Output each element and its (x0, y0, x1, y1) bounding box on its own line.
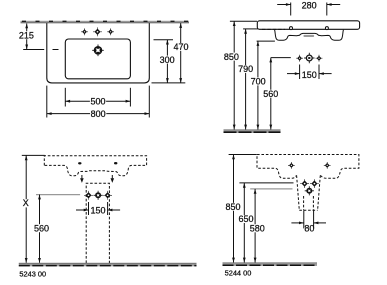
trap dashed (297, 175, 321, 210)
svg-text:5244 00: 5244 00 (225, 269, 252, 278)
tick 580 grey (250, 188, 292, 190)
svg-text:850: 850 (225, 202, 240, 212)
dim 80 (291, 211, 326, 234)
hidden edge dashes (262, 28, 285, 30)
svg-text:850: 850 (224, 52, 239, 62)
floor bar (front) (224, 130, 281, 133)
svg-text:800: 800 (91, 109, 106, 119)
svg-text:790: 790 (238, 64, 253, 74)
dim 470 (173, 23, 189, 83)
basin outline dashed (44, 156, 146, 176)
dim 560 (front) (263, 58, 291, 130)
dim 650 (238, 183, 254, 263)
fixing dot left (78, 162, 81, 164)
fixture hole right (316, 55, 323, 62)
dim 280 (277, 1, 340, 16)
wall section bar (21, 21, 190, 23)
svg-text:300: 300 (160, 55, 175, 65)
arrow left (80, 175, 84, 183)
svg-text:215: 215 (19, 30, 34, 40)
fixing hole left (290, 27, 293, 30)
dim baseline right (152, 82, 186, 84)
svg-text:560: 560 (263, 89, 278, 99)
svg-text:150: 150 (90, 205, 105, 215)
tap hole right (107, 28, 114, 35)
dim 500 (65, 88, 130, 107)
svg-text:700: 700 (251, 77, 266, 87)
svg-text:80: 80 (304, 224, 314, 234)
fixture hole right (310, 179, 319, 188)
dim 150 (dashed view) (76, 202, 120, 215)
grey reference line (36, 194, 80, 196)
svg-text:5243 00: 5243 00 (19, 270, 46, 279)
basin slab front (257, 21, 359, 30)
dim 850 (side) (225, 155, 257, 263)
drain mark (304, 53, 314, 63)
dim 580 (249, 189, 265, 263)
svg-text:280: 280 (302, 1, 317, 11)
centre mark dash (53, 49, 59, 51)
floor bar (dashed view) (19, 263, 197, 266)
dim 800 (47, 86, 150, 119)
dim 150 (287, 65, 332, 80)
svg-text:X: X (23, 198, 29, 208)
inner basin (65, 39, 130, 79)
fixing diamond left (288, 162, 295, 169)
dim 215 (18, 24, 44, 50)
drain mark (94, 191, 103, 200)
trap pad (303, 35, 314, 37)
arrow right (111, 175, 115, 183)
drain outlet (92, 45, 104, 57)
fixture hole left (296, 55, 303, 62)
svg-text:580: 580 (250, 224, 265, 234)
fixture hole right (103, 191, 112, 200)
dim X (21, 155, 44, 262)
fixing diamond right (324, 162, 331, 169)
floor bar (side view) (223, 263, 318, 266)
svg-text:500: 500 (90, 96, 105, 106)
svg-text:560: 560 (34, 223, 49, 233)
washbasin outer rim (47, 23, 150, 83)
tick 650 (239, 182, 293, 184)
dim 850 (front) (223, 21, 257, 129)
dim 790 (238, 29, 258, 129)
tap hole centre (93, 27, 102, 36)
dim 300 (154, 40, 176, 83)
drain box dashed (86, 183, 109, 263)
dim 560 (dashed view) (34, 195, 50, 263)
fixture hole left (84, 191, 93, 200)
bowl underside profile (275, 30, 344, 41)
basin side outline dashed (257, 155, 359, 179)
fixing dot right (114, 162, 117, 164)
drain mark (305, 186, 314, 195)
svg-text:150: 150 (302, 70, 317, 80)
dim 700 (250, 41, 275, 129)
fixing hole right (325, 27, 328, 30)
tap hole left (81, 28, 88, 35)
svg-text:470: 470 (173, 42, 188, 52)
fixture hole left (300, 179, 309, 188)
